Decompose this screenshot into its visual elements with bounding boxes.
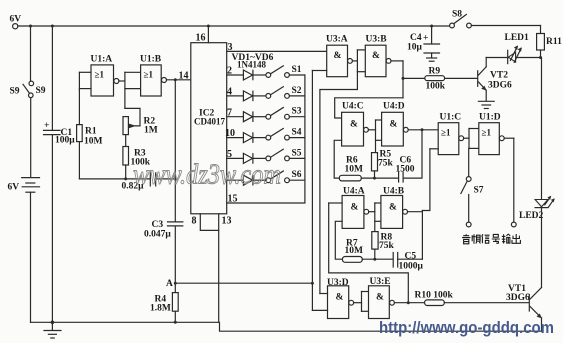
op-amp gate U1:B (NOR inverter) [140, 55, 167, 97]
svg-text:10M: 10M [345, 165, 364, 175]
capacitor C6 1500 [396, 128, 424, 182]
svg-text:C4: C4 [410, 33, 422, 43]
svg-text:S6: S6 [292, 170, 302, 180]
nand gate U3:B [365, 35, 391, 77]
svg-text:≥1: ≥1 [482, 128, 492, 138]
nand gate U4:A [342, 187, 369, 229]
wire U3:D bottom input from node A line [312, 309, 327, 311]
svg-text:www.dz3w.com: www.dz3w.com [133, 159, 281, 191]
wire from rail down to switch S9 [30, 26, 32, 81]
svg-text:R10 100k: R10 100k [415, 291, 454, 301]
capacitor 0.82u [122, 173, 176, 192]
resistor R3 100k [123, 147, 151, 179]
svg-text:+: + [44, 121, 49, 131]
svg-text:CD4017: CD4017 [194, 117, 225, 127]
wire U1:A output to U1:B inputs [119, 72, 141, 108]
svg-text:S4: S4 [292, 128, 302, 138]
svg-text:http://www.go-gddq.com: http://www.go-gddq.com [379, 319, 554, 337]
transistor VT2 3DG6 [445, 58, 512, 91]
svg-text:1M: 1M [144, 126, 158, 136]
svg-text:1500: 1500 [396, 165, 415, 175]
svg-text:&: & [336, 293, 344, 303]
wire U1:B output to IC2 pin 14 [167, 71, 191, 82]
resistor R11 [537, 26, 562, 58]
capacitor C4 10u with ground [407, 26, 440, 61]
wire U3:E output to R10 [394, 301, 424, 304]
svg-text:C5: C5 [405, 252, 417, 262]
svg-text:10M: 10M [345, 246, 364, 256]
or gate U1:C [438, 113, 463, 155]
nand gate U3:E [369, 277, 395, 319]
node A [166, 279, 177, 289]
label audio signal output (Chinese) [462, 234, 520, 244]
svg-text:14: 14 [179, 71, 189, 82]
wire R11 bottom to VT2 collector [486, 56, 542, 59]
wire pin14 node down to C3 [174, 80, 177, 222]
nand gate U3:A [326, 35, 352, 77]
ground at VT2 emitter [478, 90, 494, 108]
resistor R9 100k [403, 67, 446, 92]
wire U3:A out to U3:B inputs [352, 50, 365, 72]
svg-text:8: 8 [192, 216, 197, 227]
diode VD6 row pin 1 + switch S6 [227, 170, 305, 185]
svg-text:100k: 100k [426, 82, 446, 92]
wire S9 to battery [30, 98, 32, 178]
svg-text:U1:B: U1:B [140, 55, 162, 65]
wire U4:C out to U4:D inputs and R5 [368, 120, 381, 153]
transistor VT1 3DG6 [506, 284, 542, 331]
svg-text:S9: S9 [36, 86, 46, 96]
battery 6V bottom-left [8, 178, 40, 193]
svg-text:≥1: ≥1 [144, 70, 154, 80]
nand gate U4:C [342, 102, 369, 147]
label VD1~VD6 1N4148 [232, 53, 274, 70]
wire battery to bottom rail [30, 192, 32, 322]
LED LED1 [505, 33, 530, 64]
wire C3 to node A and bottom rail [174, 226, 177, 324]
svg-text:6V: 6V [10, 15, 22, 25]
capacitor C3 0.047u [144, 220, 183, 240]
LED LED2 [519, 58, 555, 288]
svg-text:75k: 75k [379, 241, 395, 251]
ground symbol at bottom rail [44, 322, 61, 338]
svg-text:R9: R9 [429, 67, 441, 77]
wire U3:D top input from U3:B line [320, 293, 328, 295]
wire U3:D out to U3:E inputs [354, 292, 369, 312]
svg-text:U4:C: U4:C [342, 102, 364, 112]
svg-text:3DG6: 3DG6 [488, 81, 512, 91]
svg-text:0.047μ: 0.047μ [144, 230, 171, 240]
IC U2 CD4017 [191, 43, 227, 214]
svg-text:&: & [372, 51, 380, 61]
wire U4:A gate input from U3:E output [329, 203, 409, 303]
svg-text:&: & [390, 120, 398, 130]
svg-text:+: + [423, 34, 428, 44]
svg-text:16: 16 [196, 33, 206, 44]
pin 15 label and wire to switch bus [227, 75, 305, 205]
wire U3:A bottom input to node A line [312, 71, 326, 311]
svg-text:A: A [166, 279, 173, 289]
pin 16 wire [196, 26, 209, 44]
svg-text:S2: S2 [292, 86, 302, 96]
svg-text:≥1: ≥1 [95, 70, 105, 80]
svg-text:10M: 10M [84, 137, 103, 147]
nand gate U4:D [382, 102, 409, 147]
op-amp gate U1:A (NOR inverter) [79, 55, 119, 97]
wire node A to gates line [175, 282, 314, 285]
capacitor C5 1000u [393, 252, 423, 272]
svg-text:S1: S1 [292, 65, 302, 75]
diode VD5 row pin 5 + switch S5 [227, 148, 305, 163]
svg-text:R1: R1 [85, 127, 97, 137]
capacitor C1 100u electrolytic [44, 26, 76, 322]
svg-text:LED2: LED2 [519, 211, 544, 221]
diode VD2 row pin 4 + switch S2 [227, 86, 305, 101]
svg-text:100μ: 100μ [55, 136, 75, 146]
svg-text:6V: 6V [8, 183, 20, 193]
svg-text:U1:D: U1:D [479, 113, 501, 123]
pin 8 wire [192, 214, 219, 231]
resistor R7 10M [335, 221, 393, 262]
svg-text:75k: 75k [378, 159, 394, 169]
resistor R10 100k [415, 291, 529, 306]
svg-text:S5: S5 [292, 148, 302, 158]
svg-text:S3: S3 [292, 107, 302, 117]
svg-text:&: & [350, 120, 358, 130]
wire U1:C bottom input from U4:B output [422, 149, 438, 211]
wire U4:A out to U4:B inputs and R8 [369, 203, 381, 232]
nand gate U4:B [381, 187, 408, 229]
svg-text:&: & [334, 51, 342, 61]
svg-text:R11: R11 [546, 37, 562, 47]
resistor R5 75k [372, 150, 394, 179]
wire bottom ground rail [31, 322, 542, 331]
resistor R6 10M [334, 140, 398, 181]
diode VD4 row pin 10 + switch S4 [225, 128, 305, 143]
switch S7 [461, 177, 484, 227]
svg-text:S7: S7 [474, 186, 484, 196]
svg-text:10μ: 10μ [407, 43, 423, 53]
svg-text:13: 13 [222, 216, 232, 227]
switch S8 [450, 10, 541, 28]
resistor R1 10M [77, 90, 103, 178]
svg-text:3DG6: 3DG6 [506, 293, 530, 303]
resistor R4 1.8M [150, 293, 178, 314]
nand gate U3:D [327, 278, 354, 319]
svg-text:&: & [351, 203, 359, 213]
node audio output terminal [511, 222, 516, 227]
svg-text:1.8M: 1.8M [150, 304, 171, 314]
wire oscillator RC bottom (R1/R3 to 0.82u) [79, 177, 150, 180]
svg-text:C3: C3 [152, 220, 164, 230]
node 6V terminal top-left [10, 15, 22, 29]
wire U3:B inputs junction down to U3:D top input [320, 72, 358, 294]
svg-text:LED1: LED1 [505, 33, 530, 43]
wire U4:B output to C5 and U1:C line [408, 211, 423, 260]
svg-text:U3:B: U3:B [366, 35, 388, 45]
svg-text:1000μ: 1000μ [399, 262, 424, 272]
wire U4:D output to U1:C top input [408, 129, 438, 131]
wire U3:B output to R9 node and U4:C gate input [335, 61, 405, 118]
pin 13 wire down to rail [219, 214, 232, 322]
potentiometer R2 1M [123, 108, 158, 146]
svg-text:S9: S9 [10, 87, 20, 97]
svg-text:≥1: ≥1 [441, 128, 451, 138]
svg-text:U1:A: U1:A [91, 55, 113, 65]
or gate U1:D [479, 113, 504, 155]
svg-text:15: 15 [228, 194, 238, 205]
svg-text:VT2: VT2 [490, 71, 508, 81]
svg-text:U3:A: U3:A [326, 35, 348, 45]
diode VD3 row pin 7 + switch S3 [227, 107, 305, 122]
junction dot ground node [51, 321, 55, 325]
svg-text:U1:C: U1:C [440, 113, 462, 123]
wire top power rail [18, 25, 450, 27]
svg-text:1N4148: 1N4148 [237, 60, 266, 70]
svg-text:&: & [389, 203, 397, 213]
svg-text:U4:D: U4:D [383, 102, 405, 112]
wire U1:D output to audio terminal [504, 138, 514, 222]
resistor R8 75k [372, 232, 395, 260]
wire U1:C out to U1:D inputs and S7 [464, 129, 479, 177]
svg-text:&: & [376, 293, 384, 303]
diode VD1 row pin 2 + switch S1 [227, 65, 305, 80]
pin 3 wire to U3:A [227, 42, 327, 53]
switch S9 [10, 81, 46, 98]
svg-text:3: 3 [228, 42, 233, 53]
junction dots on top rail [29, 25, 32, 28]
